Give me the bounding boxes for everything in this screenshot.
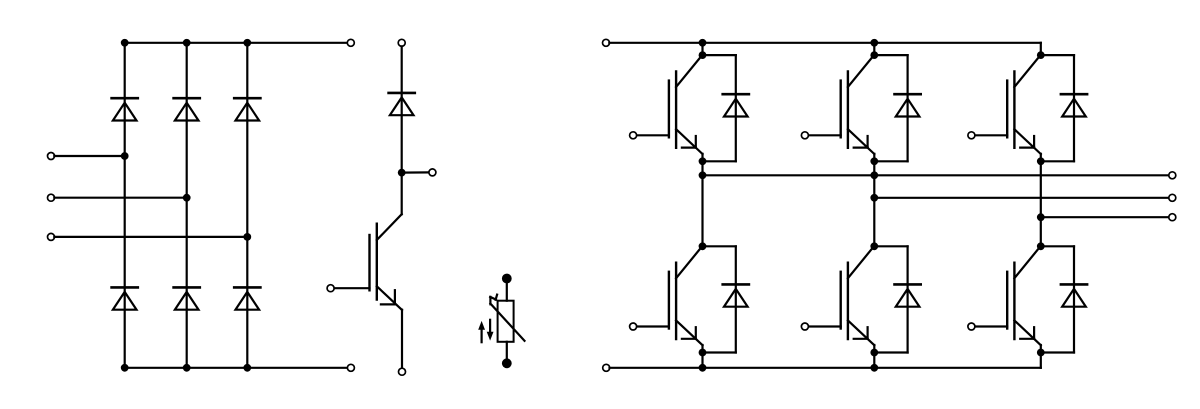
wire DC+ bend leg 3 bbox=[1040, 43, 1042, 55]
wire upper freewheel branch leg 3 bbox=[1041, 55, 1074, 161]
transistor Q3 (upper IGBT leg 3) bbox=[968, 57, 1041, 162]
junction AC input phase 3 bbox=[243, 233, 251, 241]
wire rectifier leg 1 bbox=[124, 43, 126, 368]
junction upper collector node leg 2 bbox=[870, 51, 878, 59]
diode D6 (lower, leg 3) bbox=[234, 287, 260, 309]
wire inverter DC+ bus bbox=[609, 42, 1041, 44]
wire upper freewheel branch leg 2 bbox=[874, 55, 907, 161]
wire chopper diode branch bbox=[401, 46, 403, 172]
junction upper emitter node leg 3 bbox=[1037, 157, 1045, 165]
diode D4 (lower, leg 1) bbox=[112, 287, 138, 309]
wire phase 1 column bbox=[701, 161, 703, 246]
junction DC+ bus leg 1 bbox=[699, 39, 707, 47]
terminal phase W bbox=[1169, 214, 1176, 221]
transistor Q6 (lower IGBT leg 3) bbox=[968, 248, 1041, 353]
wire phase W output bbox=[1041, 216, 1169, 218]
wire phase V output bbox=[874, 197, 1169, 199]
terminal phase U bbox=[1169, 172, 1176, 179]
wire lower freewheel branch leg 2 bbox=[874, 246, 907, 352]
terminal chopper emitter bbox=[399, 368, 406, 375]
junction phase W output tap bbox=[1037, 213, 1045, 221]
diode D1 (upper, leg 1) bbox=[112, 98, 138, 120]
diode D10 (upper freewheel leg 3) bbox=[1061, 94, 1087, 116]
terminal inverter DC- bbox=[603, 364, 610, 371]
junction upper collector node leg 1 bbox=[699, 51, 707, 59]
junction lower emitter node leg 3 bbox=[1037, 349, 1045, 357]
terminal AC input phase 1 bbox=[48, 153, 55, 160]
transistor Q5 (lower IGBT leg 2) bbox=[801, 248, 874, 353]
junction DC+ bus leg 2 bbox=[870, 39, 878, 47]
diode D3 (upper, leg 3) bbox=[234, 98, 260, 120]
junction phase U line at leg 2 bbox=[870, 171, 878, 179]
junction DC- bus leg 1 bbox=[699, 364, 707, 372]
wire rectifier leg 2 bbox=[186, 43, 188, 368]
junction lower collector node leg 3 bbox=[1037, 242, 1045, 250]
junction upper collector node leg 3 bbox=[1037, 51, 1045, 59]
wire phase 2 column bbox=[873, 161, 875, 246]
junction lower emitter node leg 2 bbox=[870, 349, 878, 357]
wire DC- bus of rectifier bbox=[125, 367, 348, 369]
transistor Q1 (upper IGBT leg 1) bbox=[630, 57, 703, 162]
wire AC input phase 3 bbox=[54, 236, 247, 238]
wire inverter DC- bus bbox=[610, 367, 1041, 369]
wire phase 3 column bbox=[1040, 161, 1042, 246]
wire NTC nonlinearity stroke bbox=[490, 295, 524, 341]
node NTC top pad bbox=[502, 274, 512, 284]
junction lower collector node leg 2 bbox=[870, 242, 878, 250]
transistor Q7 (brake chopper IGBT) bbox=[327, 214, 402, 310]
wire DC+ bus of rectifier bbox=[125, 42, 348, 44]
junction chopper midpoint bbox=[398, 169, 406, 177]
junction top bus leg 2 bbox=[183, 39, 191, 47]
wire rectifier leg 3 bbox=[246, 43, 248, 368]
wire NTC up arrow bbox=[478, 321, 485, 342]
junction bottom bus leg 2 bbox=[183, 364, 191, 372]
diode D12 (lower freewheel leg 2) bbox=[895, 284, 921, 306]
resistor R1 (NTC thermistor body) bbox=[498, 301, 514, 342]
junction lower collector node leg 1 bbox=[699, 242, 707, 250]
junction bottom bus leg 1 bbox=[121, 364, 129, 372]
wire phase U output bbox=[703, 174, 1170, 176]
wire NTC down arrow bbox=[487, 320, 494, 341]
diode D11 (lower freewheel leg 1) bbox=[723, 284, 749, 306]
wire DC- bend leg 3 bbox=[1040, 353, 1042, 368]
diode D7 (brake chopper) bbox=[389, 93, 415, 115]
junction lower emitter node leg 1 bbox=[699, 349, 707, 357]
junction DC- bus leg 2 bbox=[870, 364, 878, 372]
terminal AC input phase 3 bbox=[48, 233, 55, 240]
wire upper freewheel branch leg 1 bbox=[703, 55, 736, 161]
diode D13 (lower freewheel leg 3) bbox=[1061, 284, 1087, 306]
junction top bus leg 1 bbox=[121, 39, 129, 47]
wire lower freewheel branch leg 1 bbox=[703, 246, 736, 352]
diode D9 (upper freewheel leg 2) bbox=[895, 94, 921, 116]
wire lower freewheel branch leg 3 bbox=[1041, 246, 1074, 352]
wire AC input phase 1 bbox=[54, 155, 124, 157]
terminal chopper diode cathode bbox=[398, 39, 405, 46]
junction AC input phase 1 bbox=[121, 152, 129, 160]
junction top bus leg 3 bbox=[243, 39, 251, 47]
wire chopper IGBT collector bbox=[401, 173, 403, 215]
wire AC input phase 2 bbox=[54, 197, 186, 199]
junction AC input phase 2 bbox=[183, 194, 191, 202]
junction phase V output tap bbox=[870, 194, 878, 202]
wire chopper emitter bbox=[401, 310, 403, 369]
junction upper emitter node leg 1 bbox=[699, 157, 707, 165]
wire DC+ drop leg 2 bbox=[873, 43, 875, 55]
wire DC+ drop leg 1 bbox=[701, 43, 703, 55]
wire DC- rise leg 2 bbox=[873, 353, 875, 368]
junction phase U output tap bbox=[699, 171, 707, 179]
terminal rectifier DC- output bbox=[347, 364, 354, 371]
wire DC- rise leg 1 bbox=[701, 353, 703, 368]
node NTC bottom pad bbox=[502, 358, 512, 368]
wire chopper midpoint tap bbox=[402, 171, 429, 173]
transistor Q4 (lower IGBT leg 1) bbox=[630, 248, 703, 353]
terminal phase V bbox=[1169, 194, 1176, 201]
transistor Q2 (upper IGBT leg 2) bbox=[801, 57, 874, 162]
wire NTC bottom lead bbox=[506, 342, 508, 364]
terminal rectifier DC+ output bbox=[347, 39, 354, 46]
diode D5 (lower, leg 2) bbox=[174, 287, 200, 309]
diode D8 (upper freewheel leg 1) bbox=[723, 94, 749, 116]
diode D2 (upper, leg 2) bbox=[174, 98, 200, 120]
terminal inverter DC+ bbox=[603, 39, 610, 46]
terminal AC input phase 2 bbox=[48, 194, 55, 201]
wire NTC top lead bbox=[506, 279, 508, 301]
terminal chopper midpoint bbox=[429, 169, 436, 176]
junction bottom bus leg 3 bbox=[243, 364, 251, 372]
junction upper emitter node leg 2 bbox=[870, 157, 878, 165]
